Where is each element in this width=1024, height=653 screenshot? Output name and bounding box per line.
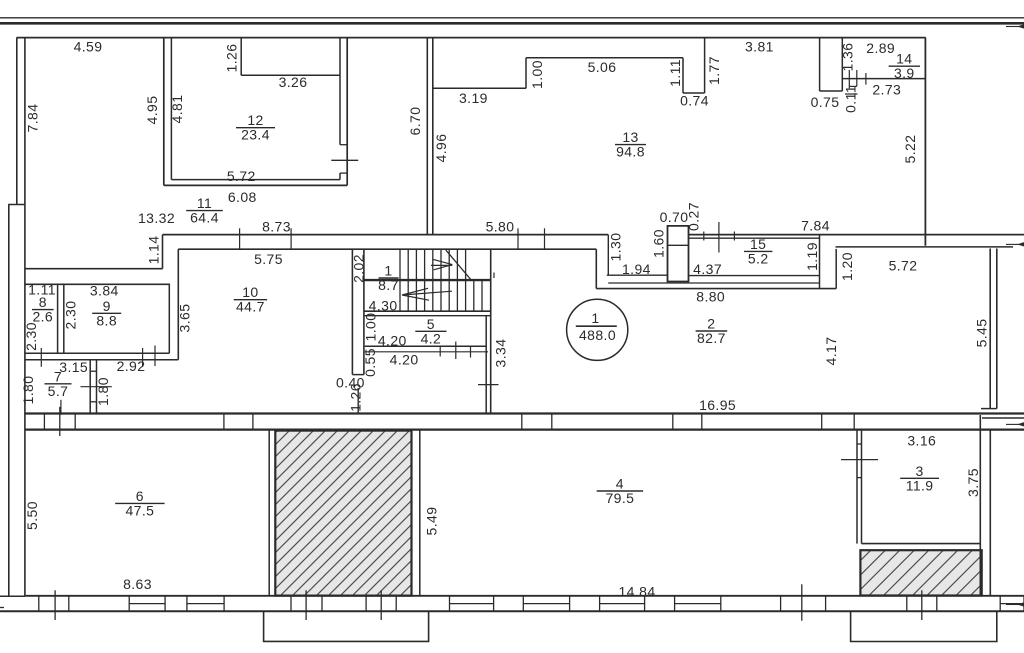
svg-text:23.4: 23.4 bbox=[241, 127, 270, 143]
svg-text:1.19: 1.19 bbox=[804, 242, 820, 271]
wall right outer lower a bbox=[979, 415, 981, 596]
wall left jog cap bbox=[8, 204, 25, 206]
svg-text:8.7: 8.7 bbox=[378, 277, 399, 293]
svg-text:3.81: 3.81 bbox=[745, 39, 774, 55]
wall room12 bottom outer bbox=[164, 184, 347, 186]
hatched opening 1 bbox=[275, 431, 411, 596]
wall top exterior bbox=[17, 37, 926, 39]
wall room12 left inner bbox=[170, 38, 172, 180]
wall room7 right a bbox=[89, 360, 91, 414]
door bottom d2 bbox=[366, 590, 396, 620]
svg-text:5.7: 5.7 bbox=[48, 383, 69, 399]
wall 5.72 right top bbox=[836, 246, 1014, 248]
svg-text:44.7: 44.7 bbox=[236, 299, 265, 315]
svg-text:4.17: 4.17 bbox=[823, 337, 839, 366]
wall 1.26 lower bbox=[357, 388, 359, 414]
stairs up arrow bbox=[431, 259, 452, 269]
label room 10 bbox=[234, 284, 267, 315]
svg-text:3.65: 3.65 bbox=[176, 304, 192, 333]
stairs mid landing line bbox=[364, 279, 491, 281]
svg-text:5.72: 5.72 bbox=[889, 258, 918, 274]
svg-text:5.06: 5.06 bbox=[588, 59, 617, 75]
wall divider top bbox=[25, 412, 1024, 414]
svg-text:1.26: 1.26 bbox=[224, 44, 240, 73]
shaft divider bbox=[668, 244, 689, 246]
window bottom w4 bbox=[600, 596, 645, 612]
wall corridor south east bbox=[689, 234, 1024, 236]
svg-text:16.95: 16.95 bbox=[699, 397, 736, 413]
label room 7 bbox=[45, 368, 72, 399]
svg-text:3.15: 3.15 bbox=[59, 359, 88, 375]
tick stairs right small bbox=[493, 273, 495, 279]
wall 8|9 b bbox=[63, 284, 65, 353]
wall bottom top line bbox=[25, 595, 1024, 597]
svg-text:47.5: 47.5 bbox=[125, 502, 154, 518]
label room 12 bbox=[236, 112, 275, 143]
wall room5 right inner bbox=[485, 316, 487, 414]
label room 13 bbox=[615, 129, 646, 160]
tick 8.73 b bbox=[290, 228, 292, 250]
svg-text:94.8: 94.8 bbox=[616, 144, 645, 160]
tick 4.20 mid bbox=[455, 342, 457, 360]
svg-text:1.94: 1.94 bbox=[622, 261, 651, 277]
tick 8.73 a bbox=[239, 228, 241, 250]
tick 0.11 b bbox=[856, 70, 858, 86]
svg-text:0.55: 0.55 bbox=[362, 348, 378, 377]
svg-text:5.80: 5.80 bbox=[486, 219, 515, 235]
stairs down arrow bbox=[402, 288, 452, 300]
svg-text:4.37: 4.37 bbox=[693, 261, 722, 277]
svg-text:1.80: 1.80 bbox=[20, 376, 36, 405]
section arrow upper-low bbox=[1006, 422, 1024, 426]
wall stairs cap 0.40 bbox=[352, 374, 364, 376]
wall 1.14 ledge bbox=[25, 268, 163, 270]
svg-text:3.9: 3.9 bbox=[894, 65, 915, 81]
tick 2.92 a bbox=[142, 348, 144, 367]
wall room3 left a bbox=[856, 430, 858, 544]
svg-text:8.63: 8.63 bbox=[123, 576, 152, 592]
tick 5.80 a bbox=[517, 228, 519, 250]
svg-text:3.84: 3.84 bbox=[90, 283, 119, 299]
wall rooms89 bottom a bbox=[25, 352, 169, 354]
tick 2.73 end bbox=[865, 73, 867, 85]
ticks on dividing wall bbox=[44, 407, 854, 436]
svg-text:0.74: 0.74 bbox=[680, 93, 709, 109]
wall rooms top 5.75 bbox=[178, 248, 596, 250]
wall room7 right b bbox=[96, 360, 98, 414]
window bottom w6 bbox=[1000, 596, 1024, 612]
svg-text:3.16: 3.16 bbox=[907, 433, 936, 449]
section arrow mid bbox=[1006, 242, 1024, 246]
wall room15 top lower bbox=[689, 237, 820, 239]
svg-text:1.36: 1.36 bbox=[840, 43, 856, 72]
shaft 0.70 box bbox=[668, 226, 689, 282]
wall corridor right bbox=[432, 38, 434, 236]
label room 4 bbox=[597, 476, 643, 507]
svg-text:5.45: 5.45 bbox=[973, 319, 989, 348]
tick room3 cross bbox=[841, 459, 878, 461]
wall 1.94 bbox=[607, 274, 668, 276]
svg-text:1.30: 1.30 bbox=[608, 233, 624, 262]
wall 1.20 vert bbox=[835, 249, 837, 289]
svg-text:4.30: 4.30 bbox=[369, 298, 398, 314]
section arrow bottom bbox=[1006, 602, 1024, 606]
tick 7.84 a bbox=[703, 232, 705, 241]
tick 4.20 a bbox=[439, 347, 441, 357]
wall 8.80 south bbox=[596, 288, 836, 290]
wall rooms89 top bbox=[25, 283, 170, 285]
wall room15 right 1.19 bbox=[819, 235, 821, 289]
wall right outer lower b bbox=[989, 430, 991, 596]
svg-text:2.89: 2.89 bbox=[866, 40, 895, 56]
svg-text:5.22: 5.22 bbox=[902, 135, 918, 164]
wall room12 left outer bbox=[163, 38, 165, 186]
wall room13 1.11 bbox=[682, 58, 684, 93]
tick below room7 bbox=[60, 400, 62, 415]
tick 2.92 b bbox=[154, 346, 156, 367]
hatched opening 2 bbox=[860, 550, 981, 595]
door bottom d3 bbox=[781, 584, 826, 620]
svg-text:6.08: 6.08 bbox=[228, 189, 257, 205]
wall closet 3.26 bbox=[241, 74, 340, 76]
tick 7.84 long bbox=[718, 222, 720, 253]
wall 1.30 vert bbox=[607, 235, 609, 276]
wall jog right vert bbox=[595, 249, 597, 288]
svg-text:4.2: 4.2 bbox=[421, 330, 442, 346]
svg-text:8.80: 8.80 bbox=[696, 289, 725, 305]
window bottom w2 bbox=[450, 596, 494, 612]
tick 5.80 b bbox=[544, 228, 546, 250]
svg-text:4.20: 4.20 bbox=[378, 333, 407, 349]
window bottom w5 bbox=[675, 596, 721, 612]
svg-text:5.49: 5.49 bbox=[423, 507, 439, 536]
door jamb room12 upper bbox=[340, 144, 347, 146]
wall notch right bbox=[841, 38, 843, 91]
svg-text:0.75: 0.75 bbox=[811, 94, 840, 110]
wall room10 left bbox=[177, 249, 179, 360]
dim line 4.20 bbox=[365, 351, 488, 353]
label room 2 bbox=[696, 316, 728, 347]
svg-text:1.20: 1.20 bbox=[839, 252, 855, 281]
stairs upper flight risers bbox=[400, 249, 466, 280]
wall room3 left b bbox=[861, 430, 863, 544]
svg-text:2.30: 2.30 bbox=[23, 322, 39, 351]
wall rooms89 right bbox=[168, 284, 170, 353]
door tick room12 bbox=[331, 159, 358, 161]
wall corridor left bbox=[426, 38, 428, 236]
tick 3.15 a bbox=[40, 348, 42, 367]
svg-text:5.2: 5.2 bbox=[748, 250, 769, 266]
wall left inner bbox=[24, 38, 26, 597]
window cap room3 a bbox=[857, 443, 862, 445]
svg-text:1.80: 1.80 bbox=[95, 377, 111, 406]
svg-text:14.84: 14.84 bbox=[618, 584, 655, 600]
wall divider bottom bbox=[25, 429, 1024, 431]
svg-text:3.19: 3.19 bbox=[459, 90, 488, 106]
svg-text:4.95: 4.95 bbox=[144, 96, 160, 125]
window cap room3 b bbox=[857, 477, 862, 479]
svg-text:3.75: 3.75 bbox=[965, 468, 981, 497]
svg-text:4.20: 4.20 bbox=[390, 352, 419, 368]
svg-text:11.9: 11.9 bbox=[906, 477, 934, 493]
wall room3 bottom bbox=[862, 543, 981, 545]
svg-text:3.34: 3.34 bbox=[493, 339, 509, 368]
wall left outer lower bbox=[8, 205, 10, 597]
door jamb room12 lower bbox=[340, 172, 347, 174]
svg-text:3.26: 3.26 bbox=[279, 74, 308, 90]
porch right bbox=[851, 611, 997, 641]
label room 5 bbox=[415, 316, 446, 347]
svg-text:79.5: 79.5 bbox=[605, 490, 634, 506]
svg-text:13.32: 13.32 bbox=[138, 210, 175, 226]
door bottom d4 bbox=[907, 590, 937, 620]
door bottom d1 bbox=[291, 590, 322, 620]
svg-text:1.77: 1.77 bbox=[706, 56, 722, 85]
svg-text:1: 1 bbox=[591, 310, 599, 326]
wall left outer upper bbox=[16, 38, 18, 205]
wall bottom left tickstub bbox=[0, 607, 4, 609]
wall rooms89 bottom b bbox=[25, 359, 178, 361]
wall stairs right bbox=[490, 249, 492, 413]
wall jog 1.14 vert bbox=[162, 235, 164, 269]
label room 8 bbox=[32, 294, 54, 325]
wall notch cap 0.75 bbox=[820, 90, 843, 92]
svg-text:5.72: 5.72 bbox=[227, 168, 256, 184]
wall bottom bottom line bbox=[0, 610, 1024, 612]
wall notch left 1.78 bbox=[819, 38, 821, 91]
wall divider right extra bbox=[982, 417, 1024, 419]
wall room7 cap a bbox=[90, 370, 96, 372]
svg-text:7.84: 7.84 bbox=[25, 104, 41, 133]
tick 0.11 a bbox=[848, 70, 850, 88]
wall room12 right inner upper bbox=[339, 38, 341, 145]
wall room13 3.19 bbox=[433, 87, 526, 89]
svg-text:5.75: 5.75 bbox=[254, 251, 283, 267]
room 1 area circle bbox=[567, 299, 628, 360]
wall right outer upper a bbox=[989, 249, 991, 409]
label room 11 bbox=[186, 195, 223, 226]
wall stairs left inner bbox=[363, 249, 365, 374]
svg-text:0.70: 0.70 bbox=[660, 209, 689, 225]
wall bottom left stub bbox=[0, 595, 25, 597]
svg-text:4.96: 4.96 bbox=[433, 134, 449, 163]
svg-text:2.92: 2.92 bbox=[117, 358, 146, 374]
wall room13 0.74 bbox=[683, 92, 705, 94]
wall room12 right outer bbox=[346, 38, 348, 186]
svg-text:8.8: 8.8 bbox=[96, 312, 117, 328]
svg-text:4.81: 4.81 bbox=[169, 95, 185, 124]
label room 15 bbox=[744, 236, 772, 267]
svg-text:2.6: 2.6 bbox=[32, 309, 53, 325]
wall top border thin bbox=[0, 17, 1024, 19]
svg-text:1.00: 1.00 bbox=[529, 60, 545, 89]
wall stairs left outer bbox=[351, 249, 353, 374]
wall right cap bbox=[981, 408, 997, 410]
wall room7 cap b bbox=[90, 401, 96, 403]
wall room14 bottom bbox=[842, 78, 925, 80]
svg-text:8.73: 8.73 bbox=[262, 219, 291, 235]
wall room13 1.77 bbox=[704, 38, 706, 93]
section arrow top bbox=[1006, 24, 1024, 28]
svg-text:1.14: 1.14 bbox=[145, 236, 161, 265]
label room 3 bbox=[900, 463, 939, 494]
svg-text:0.27: 0.27 bbox=[686, 202, 702, 231]
label room 6 bbox=[115, 488, 164, 519]
svg-text:2.02: 2.02 bbox=[350, 254, 366, 283]
svg-text:1.11: 1.11 bbox=[667, 59, 683, 87]
tick 0.11 base bbox=[845, 93, 858, 95]
window bottom w1 bbox=[187, 596, 224, 612]
svg-text:488.0: 488.0 bbox=[579, 327, 616, 343]
stairs lower flight risers bbox=[400, 280, 482, 311]
wall 5.22 bbox=[924, 38, 926, 246]
svg-text:4.59: 4.59 bbox=[74, 39, 103, 55]
wall room13 5.06 bbox=[526, 57, 683, 59]
svg-text:2.30: 2.30 bbox=[63, 301, 79, 330]
svg-text:5.50: 5.50 bbox=[24, 501, 40, 530]
tick 0.11 cap bbox=[849, 85, 857, 87]
label room 14 bbox=[889, 51, 920, 81]
wall room12 right inner lower bbox=[339, 173, 341, 180]
tick 4.20 b bbox=[470, 347, 472, 358]
svg-text:6.70: 6.70 bbox=[407, 107, 423, 136]
wall room12 bottom inner bbox=[171, 179, 340, 181]
svg-text:2.73: 2.73 bbox=[872, 82, 901, 98]
stairs bottom line bbox=[364, 310, 491, 312]
wall room13 1.00 bbox=[525, 58, 527, 89]
label room 9 bbox=[92, 298, 121, 329]
wall top border thick bbox=[0, 22, 1024, 25]
svg-text:1.26: 1.26 bbox=[347, 383, 363, 412]
wall room5 top bbox=[364, 315, 491, 317]
line 8.80 inner bbox=[608, 282, 819, 284]
tick 1.80 cross bbox=[81, 386, 112, 388]
porch left bbox=[264, 611, 429, 641]
window bottom w3 bbox=[523, 596, 569, 612]
svg-text:1.60: 1.60 bbox=[651, 229, 667, 258]
wall room4 left bbox=[419, 430, 421, 596]
tick 3.34 cross bbox=[478, 384, 499, 386]
svg-text:0.11: 0.11 bbox=[843, 85, 859, 113]
wall right outer upper b bbox=[996, 249, 998, 409]
wall 4.37 bbox=[689, 275, 820, 277]
tick 7.84 b bbox=[733, 232, 735, 241]
svg-text:7.84: 7.84 bbox=[801, 218, 830, 234]
svg-text:64.4: 64.4 bbox=[190, 210, 219, 226]
wall room6 right bbox=[268, 430, 270, 596]
wall closet 1.26 bbox=[240, 38, 242, 76]
label stair 8.7 bbox=[378, 263, 399, 294]
stairs break diagonal bbox=[446, 250, 471, 280]
wall 8|9 a bbox=[57, 284, 59, 353]
svg-text:82.7: 82.7 bbox=[697, 330, 726, 346]
door bottom far-left bbox=[39, 590, 69, 620]
window bottom w0 bbox=[129, 596, 165, 612]
svg-text:1.00: 1.00 bbox=[363, 313, 379, 342]
wall corridor south west bbox=[163, 234, 609, 236]
wall room5 bottom bbox=[365, 345, 487, 347]
